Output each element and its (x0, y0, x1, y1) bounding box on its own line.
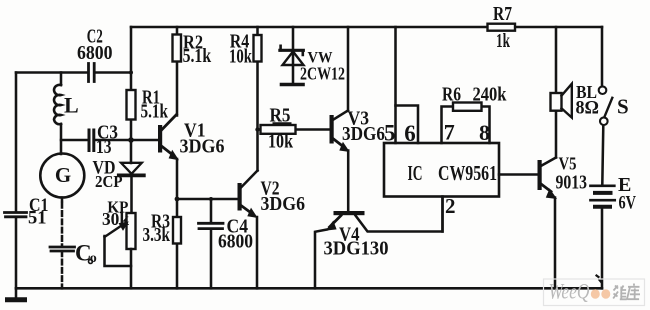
artifact specks (597, 276, 602, 282)
transistor V4 (315, 197, 443, 289)
node junction base wire (128, 137, 134, 143)
svg-text:2CP: 2CP (95, 172, 123, 191)
wire pin6 arch (396, 106, 419, 144)
wire V3 emitter to V4 base (347, 151, 350, 212)
potentiometer KP (105, 213, 136, 288)
svg-text:WeeQ: WeeQ (549, 279, 590, 304)
wire pin5 column (394, 27, 397, 143)
wire bottom ground rail (16, 287, 602, 290)
svg-text:2CW12: 2CW12 (300, 64, 345, 84)
node junction C2-R1 (129, 71, 133, 75)
inductor L (54, 73, 61, 155)
wire top-left horizontal to C2 (16, 71, 131, 74)
svg-text:L: L (64, 93, 79, 118)
capacitor C1 (5, 213, 27, 217)
svg-text:R7: R7 (493, 3, 512, 25)
svg-text:30k: 30k (102, 209, 129, 229)
IC U1 CW9561 (384, 143, 499, 197)
svg-text:R6: R6 (442, 84, 461, 106)
svg-text:51: 51 (28, 208, 47, 229)
node junction emitter-R3 (175, 197, 180, 202)
transistor V1 (158, 115, 179, 200)
svg-text:3.3k: 3.3k (143, 224, 171, 246)
svg-text:8Ω: 8Ω (576, 99, 600, 119)
switch S (599, 27, 613, 185)
svg-text:2: 2 (445, 194, 456, 218)
svg-text:IC: IC (408, 161, 423, 185)
svg-text:7: 7 (444, 120, 455, 145)
wire pin2 (441, 197, 444, 232)
wire left vertical rail (15, 73, 18, 289)
resistor R1 (127, 90, 136, 120)
svg-text:3DG6: 3DG6 (180, 136, 225, 158)
wire C3 base wire (61, 139, 158, 142)
node junction R5 (255, 127, 259, 131)
wire dashed line below G (61, 198, 64, 202)
ground (8, 288, 25, 300)
svg-text:o: o (90, 251, 97, 266)
svg-text:CW9561: CW9561 (438, 161, 497, 185)
svg-text:6V: 6V (619, 193, 637, 214)
watermark CJK 维库 (613, 284, 640, 300)
node junction C4 (209, 197, 213, 201)
capacitor C2 (89, 64, 95, 82)
wire R1 column (130, 27, 133, 163)
resistor R4 (254, 27, 262, 62)
svg-text:G: G (55, 163, 71, 187)
svg-text:S: S (617, 95, 629, 119)
svg-text:6: 6 (404, 121, 416, 146)
resistor R7 (488, 24, 516, 31)
wire V1 emitter to V2 base (177, 198, 238, 201)
speaker BL (551, 84, 572, 118)
microphone G (40, 154, 84, 198)
resistor R2 (173, 27, 182, 116)
battery E (591, 186, 615, 288)
wire V3 collector column (347, 27, 350, 111)
wire top supply rail (131, 26, 602, 29)
svg-text:V5: V5 (559, 154, 577, 174)
wire speaker column (555, 27, 558, 158)
watermark WeeQoo (544, 279, 645, 306)
zener diode VW (280, 27, 304, 85)
resistor R6 with pin7 pin8 loop (442, 103, 490, 144)
svg-text:13: 13 (96, 136, 112, 158)
svg-text:5.1k: 5.1k (183, 45, 212, 67)
svg-text:6800: 6800 (218, 231, 253, 253)
transistor V2 (238, 171, 258, 289)
artifact small circle (89, 260, 93, 264)
transistor V5 (538, 158, 558, 289)
svg-text:10k: 10k (229, 46, 253, 68)
wire IC output to V5 (499, 173, 538, 176)
svg-text:5.1k: 5.1k (141, 101, 169, 123)
capacitor C3 (89, 130, 94, 151)
svg-text:9013: 9013 (556, 172, 588, 194)
diode VD (119, 163, 144, 213)
resistor R5 (258, 125, 331, 134)
svg-text:10k: 10k (268, 131, 294, 153)
resistor R3 (173, 199, 181, 288)
capacitor Co (50, 247, 75, 251)
svg-text:3DG6: 3DG6 (342, 123, 385, 145)
transistor V3 (330, 111, 350, 153)
svg-text:3DG6: 3DG6 (261, 193, 306, 215)
wire V2 collector column (256, 62, 259, 171)
svg-text:5: 5 (384, 121, 396, 146)
svg-text:8: 8 (479, 120, 490, 145)
svg-text:1k: 1k (496, 30, 511, 52)
svg-text:6800: 6800 (77, 43, 113, 64)
svg-text:3DG130: 3DG130 (324, 238, 389, 260)
capacitor C4 (199, 199, 224, 288)
svg-text:240k: 240k (473, 84, 508, 106)
